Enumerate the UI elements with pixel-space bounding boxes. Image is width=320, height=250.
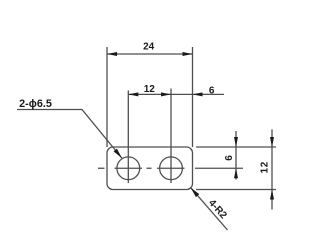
arrowhead 12 left [128,92,138,96]
arrowhead leader R [189,186,199,197]
arrowhead 12 vertical top [270,137,274,147]
extension line right for 24 and 6 dims [192,47,194,147]
dimension line 12 horizontal [128,93,171,95]
centerline horizontal left stub [98,167,105,169]
arrowhead 24 right [183,52,193,56]
centerline vertical left hole / extension for 12 dim [127,91,129,184]
svg-text:2-ϕ6.5: 2-ϕ6.5 [19,98,52,110]
extension line left for 24 dim [106,47,108,147]
hole left [117,157,140,180]
leader 2-phi6.5 [17,110,122,159]
dimension line 6 horizontal with tail [171,93,224,95]
dimension line 6 vertical [235,131,237,180]
centerline horizontal dash between holes [147,167,152,169]
centerline horizontal through right hole [157,167,185,169]
hole right [160,157,183,180]
arrowhead 12 right [161,92,171,96]
svg-text:6: 6 [209,85,215,96]
arrowhead 12 vertical bottom [270,190,274,200]
svg-text:12: 12 [260,161,271,173]
centerline horizontal through left hole [115,167,143,169]
leader 4-R2 [191,188,228,230]
svg-text:12: 12 [144,84,156,95]
extension line bottom edge extended right [196,189,276,191]
dimension line 12 vertical [271,129,273,209]
arrowhead 24 left [107,52,117,56]
arrowhead 6 vertical bottom [234,168,238,178]
centerline vertical right hole / extension for 12 and 6 dims [170,89,172,184]
centerline horizontal extension right for vertical 6 dim [195,167,243,169]
plate outline [107,147,193,190]
arrowhead 6 horizontal [193,92,203,96]
arrowhead leader phi [114,149,124,160]
svg-text:6: 6 [224,155,235,161]
extension line top edge extended right [196,146,276,148]
arrowhead 6 vertical top [234,137,238,147]
dimension line 24 [107,53,193,55]
svg-text:24: 24 [143,42,155,53]
